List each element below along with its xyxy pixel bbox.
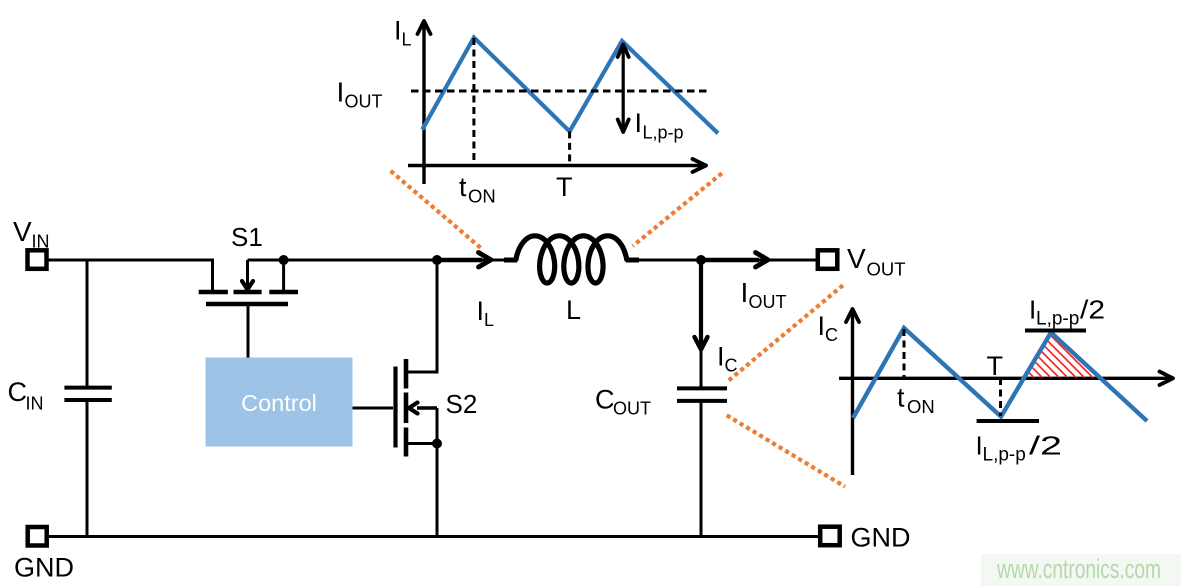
wire S2 drain — [406, 260, 437, 372]
svg-text:S1: S1 — [231, 222, 263, 252]
ILpp double arrow — [622, 46, 625, 130]
transistor S2 gate bar — [393, 367, 397, 448]
terminal square VOUT — [818, 250, 838, 268]
transistor S1 channel bars — [199, 290, 228, 295]
wire CIN top — [86, 260, 89, 386]
svg-text:C: C — [825, 325, 838, 345]
watermark background — [981, 554, 1181, 586]
IL waveform — [422, 38, 718, 134]
svg-text:L,p-p: L,p-p — [643, 123, 684, 143]
svg-text:GND: GND — [851, 523, 911, 553]
wire S1 arrow prong — [246, 260, 249, 287]
node junction dot S2 source — [432, 439, 442, 449]
terminal square GND right — [820, 527, 840, 546]
svg-text:OUT: OUT — [613, 399, 651, 419]
arrowhead IOUT on wire — [756, 253, 769, 268]
terminal square GND left — [28, 527, 47, 546]
svg-text:T: T — [987, 351, 1004, 381]
wire control to S2 gate — [353, 407, 394, 410]
wire S1 gate to control — [247, 306, 250, 358]
terminal square VIN — [28, 250, 47, 268]
wire COUT bottom — [700, 402, 703, 537]
orange dotted leader right of IL graph — [633, 173, 722, 246]
svg-text:C: C — [595, 385, 615, 415]
dashed vertical T — [568, 131, 571, 164]
node junction dot S1 drain — [279, 255, 289, 265]
arrowhead IL on wire — [479, 253, 492, 268]
svg-text:I: I — [818, 311, 826, 341]
orange dotted leader left of IL graph — [391, 171, 481, 248]
svg-text:I: I — [394, 16, 402, 46]
wire CIN bottom — [86, 402, 89, 537]
capacitor COUT — [677, 386, 727, 390]
svg-text:I: I — [717, 342, 725, 372]
svg-text:GND: GND — [14, 553, 74, 583]
arrowhead IC on wire — [695, 337, 708, 350]
bracket ILpp/2 top — [1025, 329, 1086, 333]
svg-text:T: T — [556, 172, 573, 202]
inductor L stubs — [504, 258, 517, 263]
svg-text:S2: S2 — [446, 389, 478, 419]
svg-text:V: V — [847, 243, 866, 274]
svg-text:OUT: OUT — [867, 259, 906, 280]
IL graph vertical axis — [422, 24, 425, 184]
svg-text:C: C — [8, 377, 28, 407]
red hatched triangle — [974, 326, 1181, 460]
transistor S2 channel segments — [404, 359, 409, 389]
dashed vertical IC peak — [903, 329, 906, 377]
wire inductor to output node — [638, 259, 701, 262]
svg-text:IN: IN — [26, 394, 44, 414]
dashed vertical IC T — [999, 378, 1002, 416]
wire top rail from VIN to S1 source — [48, 260, 213, 290]
svg-text:OUT: OUT — [345, 92, 383, 112]
svg-text:L: L — [484, 310, 494, 330]
wire switch node to inductor — [437, 259, 506, 262]
svg-text:IN: IN — [32, 232, 50, 252]
transistor S1 gate bar — [206, 302, 288, 307]
wire COUT top with IC arrow — [700, 260, 703, 387]
svg-text:I: I — [741, 277, 749, 308]
wire output node to VOUT — [701, 259, 816, 262]
dashed vertical tON — [472, 38, 475, 164]
orange dotted leader bottom of IC graph — [727, 415, 845, 486]
svg-text:L: L — [566, 295, 581, 325]
wire S2 source — [406, 444, 437, 537]
wire bottom ground rail — [48, 535, 818, 538]
IC graph vertical axis — [851, 311, 854, 475]
svg-text:OUT: OUT — [749, 292, 787, 312]
svg-text:Control: Control — [241, 390, 317, 416]
svg-text:t: t — [897, 383, 905, 413]
svg-text:ON: ON — [468, 186, 496, 207]
svg-text:www.cntronics.com: www.cntronics.com — [996, 554, 1161, 584]
IL graph horizontal axis — [408, 164, 704, 167]
wire top rail from S1 to switch node — [248, 259, 438, 262]
wire S2 body tie — [436, 408, 439, 444]
transistor S2 body arrowhead — [409, 403, 418, 414]
svg-text:L: L — [402, 30, 412, 50]
dashed average line IOUT — [411, 90, 708, 93]
svg-text:I: I — [337, 77, 345, 108]
node junction dot output — [696, 255, 706, 265]
bracket ILpp/2 bottom — [977, 419, 1039, 423]
inductor L coil — [516, 236, 627, 283]
svg-text:V: V — [13, 216, 32, 247]
node junction dot switch node — [432, 255, 442, 265]
svg-text:I: I — [635, 108, 643, 138]
transistor S1 body arrowhead — [242, 281, 253, 290]
svg-text:/2: /2 — [1029, 431, 1062, 461]
svg-text:t: t — [459, 172, 467, 202]
IC waveform — [853, 328, 1147, 421]
svg-text:L,p-p: L,p-p — [1036, 309, 1079, 330]
IC graph horizontal axis — [839, 377, 1171, 380]
svg-text:L,p-p: L,p-p — [983, 445, 1026, 466]
svg-text:I: I — [477, 296, 485, 326]
svg-text:ON: ON — [907, 396, 935, 417]
control block — [206, 358, 353, 447]
wire S1 drain prong — [282, 260, 285, 290]
svg-text:/2: /2 — [1080, 295, 1105, 325]
orange dotted leader top of IC graph — [729, 283, 846, 380]
capacitor CIN — [64, 386, 111, 390]
